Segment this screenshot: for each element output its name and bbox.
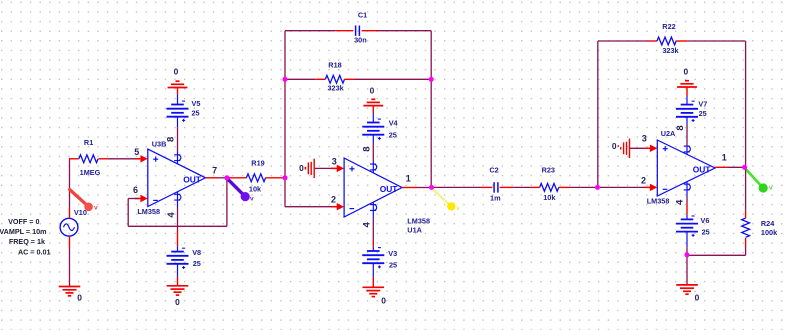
wire junction to U2A pin 2 <box>598 186 651 188</box>
wire V6 to junction <box>686 232 688 255</box>
label V7 <box>698 100 707 109</box>
svg-text:1: 1 <box>406 174 411 184</box>
junction R18 left <box>283 77 288 82</box>
svg-text:v: v <box>94 205 98 212</box>
wire loop left vertical <box>284 31 286 178</box>
junction R18 right <box>429 77 434 82</box>
label R23 <box>542 166 555 175</box>
capacitor C1 <box>335 26 377 36</box>
wire junction to U1A pin 2 <box>285 178 336 207</box>
value 25 V7 <box>699 109 707 118</box>
wire C2 to R23 <box>513 186 531 188</box>
wire U3B output <box>206 177 231 179</box>
wire U1A pin 4 to V3 <box>372 218 374 252</box>
wire V7 to U2A pin 8 <box>686 117 688 147</box>
op-amp U2A <box>657 140 715 196</box>
svg-text:4: 4 <box>361 221 372 227</box>
svg-text:30n: 30n <box>354 36 367 45</box>
svg-text:R22: R22 <box>662 22 675 31</box>
label V3 <box>388 249 397 258</box>
wire loop top right <box>378 30 432 32</box>
ground 0 inverted above V4 <box>363 99 383 105</box>
svg-text:V10: V10 <box>74 208 87 217</box>
svg-text:8: 8 <box>361 146 372 151</box>
wire V3 to ground <box>372 263 374 287</box>
label V5 <box>192 99 201 108</box>
svg-text:2: 2 <box>641 175 646 185</box>
svg-text:0: 0 <box>683 67 688 77</box>
svg-text:VOFF = 0: VOFF = 0 <box>8 217 39 226</box>
pin 8 number U2A <box>675 125 686 130</box>
ground 0 below V10 <box>59 287 81 296</box>
svg-text:R19: R19 <box>251 158 264 167</box>
svg-text:25: 25 <box>699 109 707 118</box>
label V4 <box>389 119 399 128</box>
svg-text:25: 25 <box>702 228 710 237</box>
ground 0 below V6 <box>676 285 698 294</box>
label C1 <box>358 10 367 19</box>
svg-text:0: 0 <box>299 163 304 173</box>
svg-text:v: v <box>769 185 773 192</box>
label R1 <box>84 138 93 147</box>
svg-text:4: 4 <box>166 212 177 218</box>
svg-text:C1: C1 <box>358 10 367 19</box>
pin 3 number U1A <box>332 156 337 166</box>
pin 6 number <box>133 185 138 195</box>
junction R19 right <box>283 175 288 180</box>
voltage probe marker yellow on U1A output <box>432 188 460 212</box>
svg-text:v: v <box>456 205 460 212</box>
svg-text:LM358: LM358 <box>647 196 670 205</box>
resistor R19 <box>229 174 283 182</box>
svg-text:V3: V3 <box>388 249 397 258</box>
value 25 V5 <box>192 109 200 118</box>
label U1A <box>407 226 422 235</box>
label V8 <box>192 248 201 257</box>
pin 3 arrow U1A <box>331 165 344 172</box>
svg-text:OUT: OUT <box>380 184 399 194</box>
label R19 <box>251 158 264 167</box>
op-amp U1A <box>344 158 402 217</box>
svg-text:25: 25 <box>389 260 397 269</box>
svg-text:LM358: LM358 <box>137 207 160 216</box>
resistor R22 <box>647 37 688 45</box>
battery V6 <box>676 216 698 237</box>
voltage probe marker green on U2A output <box>745 168 773 192</box>
junction V6 R24 <box>685 252 690 257</box>
pin 3 arrow U2A <box>644 145 657 152</box>
svg-text:3: 3 <box>642 134 647 144</box>
label U3B <box>152 140 167 149</box>
pin 4 stem U3B <box>174 192 181 208</box>
svg-text:R1: R1 <box>84 138 93 147</box>
svg-text:1m: 1m <box>490 194 501 203</box>
ground 0 inverted above V5 <box>168 81 188 87</box>
svg-text:0: 0 <box>370 86 375 96</box>
label V10 <box>74 208 87 217</box>
pin 2 arrow U1A <box>331 203 344 210</box>
resistor R18 <box>315 75 355 83</box>
svg-text:10k: 10k <box>543 193 556 202</box>
svg-text:1MEG: 1MEG <box>80 168 101 177</box>
wire R22 loop left vertical <box>597 41 599 187</box>
svg-text:25: 25 <box>389 130 397 139</box>
pin 8 stem U1A <box>370 162 377 173</box>
wire U1A output <box>402 187 431 189</box>
wire R22 loop top right <box>688 40 746 42</box>
value 1m <box>490 194 501 203</box>
wire R18 to loop right <box>355 78 431 80</box>
wire R24 to V6 junction <box>687 247 746 256</box>
svg-text:7: 7 <box>212 165 217 175</box>
voltage probe marker purple on U3B output <box>227 179 254 203</box>
wire ground to U2A pin 3 <box>630 147 649 149</box>
svg-text:V7: V7 <box>698 100 707 109</box>
pin 4 number U3B <box>166 212 177 218</box>
svg-text:6: 6 <box>133 185 138 195</box>
wire junction to ground V6 <box>686 255 688 285</box>
value 25 V8 <box>193 259 201 268</box>
label 0 net V3 ground <box>381 295 386 305</box>
label 0 net above V7 <box>683 67 688 77</box>
wire loop top left <box>285 30 335 32</box>
junction R22 tap <box>595 185 600 190</box>
value 25 V3 <box>389 260 397 269</box>
pin 4 number U1A <box>361 221 372 227</box>
svg-text:V6: V6 <box>701 216 710 225</box>
wire U2A output to R24 <box>745 167 747 211</box>
pin 4 stem U2A <box>684 182 691 197</box>
value 30n <box>354 36 367 45</box>
svg-text:OUT: OUT <box>693 165 712 175</box>
op-amp U3B <box>148 149 206 206</box>
svg-text:0: 0 <box>77 293 82 303</box>
pin 4 stem U1A <box>370 202 377 217</box>
svg-text:V5: V5 <box>192 99 201 108</box>
pin 2 number U2A <box>641 175 646 185</box>
wire R22 loop right vertical <box>745 41 747 167</box>
junction U3B output <box>224 175 229 180</box>
junction U1A output <box>429 185 434 190</box>
label 0 net U2A pin3 <box>612 141 619 151</box>
wire U3B pin 4 to V8 <box>177 208 179 252</box>
value 323k R22 <box>662 46 679 55</box>
battery V7 <box>676 101 698 122</box>
value 10k R23 <box>543 193 556 202</box>
pin 6 arrow U3B <box>135 195 148 202</box>
label U2A <box>661 129 676 138</box>
pin 7 number <box>212 165 217 175</box>
label LM358 U3B <box>137 207 160 216</box>
svg-text:2: 2 <box>331 195 336 205</box>
svg-text:v: v <box>250 196 254 203</box>
wire loop right vertical <box>430 31 432 188</box>
value 100k <box>761 228 778 237</box>
label R24 <box>761 219 775 228</box>
pin 1 number U1A <box>406 174 411 184</box>
svg-text:25: 25 <box>192 109 200 118</box>
ground 0 below V8 <box>167 286 189 295</box>
pin 1 number U2A <box>722 153 727 163</box>
wire V8 to ground <box>177 264 179 286</box>
voltage probe marker on V10 node <box>70 190 98 212</box>
svg-text:323k: 323k <box>662 46 679 55</box>
V10 parameter labels <box>0 217 51 257</box>
svg-text:0: 0 <box>695 293 700 303</box>
svg-text:AC = 0.01: AC = 0.01 <box>18 248 51 257</box>
capacitor C2 <box>481 182 513 192</box>
wire ground to V4 <box>372 106 374 123</box>
resistor R24 <box>742 211 750 247</box>
battery V3 <box>362 248 384 269</box>
battery V4 <box>362 119 384 140</box>
svg-text:R24: R24 <box>761 219 775 228</box>
svg-text:C2: C2 <box>489 166 498 175</box>
wire R23 to junction <box>570 186 598 188</box>
label 0 net U1A pin3 <box>299 163 306 173</box>
svg-text:0: 0 <box>175 297 180 307</box>
svg-text:8: 8 <box>166 137 177 142</box>
pin 8 number U1A <box>361 146 372 151</box>
label 0 net above V4 <box>370 86 375 96</box>
resistor R1 <box>69 155 108 163</box>
svg-text:LM358: LM358 <box>407 216 430 225</box>
wire V5 to U3B pin 8 <box>177 117 179 152</box>
pin 2 number U1A <box>331 195 336 205</box>
wire V10 to ground <box>69 248 71 287</box>
ground 0 rotated U2A pin3 <box>621 139 630 158</box>
svg-text:U3B: U3B <box>152 140 167 149</box>
pin 5 arrow U3B <box>135 155 148 162</box>
svg-text:100k: 100k <box>761 228 778 237</box>
wire ground to V7 <box>686 87 688 105</box>
svg-text:4: 4 <box>674 199 685 205</box>
label R22 <box>662 22 675 31</box>
battery V8 <box>167 248 189 269</box>
wire R22 loop top left <box>598 40 647 42</box>
pin 4 number U2A <box>674 199 685 205</box>
label C2 <box>489 166 498 175</box>
svg-text:R18: R18 <box>328 60 341 69</box>
pin 3 number U2A <box>642 134 647 144</box>
label 0 net V8 ground <box>175 297 180 307</box>
label LM358 U1A <box>407 216 430 225</box>
label V6 <box>701 216 710 225</box>
ground 0 rotated U1A pin3 <box>305 159 314 178</box>
value 1MEG <box>80 168 101 177</box>
feedback wire U3B output to pin 6 <box>128 178 227 227</box>
wire R1 to U3B pin 5 <box>108 158 140 160</box>
pin 8 stem U2A <box>684 146 691 154</box>
label LM358 U2A <box>647 196 670 205</box>
value 25 V6 <box>702 228 710 237</box>
label 0 net V10 ground <box>77 293 82 303</box>
value 25 V4 <box>389 130 397 139</box>
wire V4 to U1A pin 8 <box>372 135 374 162</box>
wire ground to U1A pin 3 <box>315 167 336 169</box>
svg-text:25: 25 <box>193 259 201 268</box>
value 10k R19 <box>249 185 262 194</box>
ground 0 below V3 <box>363 287 385 296</box>
svg-text:1: 1 <box>722 153 727 163</box>
svg-text:OUT: OUT <box>183 174 202 184</box>
svg-text:0: 0 <box>174 67 179 77</box>
wire U2A output <box>715 166 745 168</box>
value 323k R18 <box>327 84 344 93</box>
svg-text:FREQ = 1k: FREQ = 1k <box>9 237 45 246</box>
svg-text:VAMPL = 10m: VAMPL = 10m <box>0 227 47 236</box>
label R18 <box>328 60 341 69</box>
battery V5 <box>167 101 189 122</box>
svg-text:8: 8 <box>675 125 686 130</box>
label 0 net above V5 <box>174 67 179 77</box>
ground 0 inverted above V7 <box>677 81 697 87</box>
pin 8 stem U3B <box>174 152 181 164</box>
label 0 net V6 ground <box>695 293 700 303</box>
voltage source V10 <box>60 208 78 249</box>
svg-text:V8: V8 <box>192 248 201 257</box>
wire U1A output to C2 <box>431 186 481 188</box>
svg-text:323k: 323k <box>327 84 344 93</box>
pin 8 number U3B <box>166 137 177 142</box>
pin 2 arrow U2A <box>644 184 657 191</box>
svg-text:10k: 10k <box>249 185 262 194</box>
svg-text:5: 5 <box>134 147 139 157</box>
wire to R18 <box>285 78 315 80</box>
wire ground to V5 <box>177 88 179 105</box>
svg-text:R23: R23 <box>542 166 555 175</box>
svg-text:U1A: U1A <box>407 226 422 235</box>
svg-text:0: 0 <box>381 295 386 305</box>
wire V10 to R1 <box>69 158 71 207</box>
resistor R23 <box>530 184 570 192</box>
svg-text:U2A: U2A <box>661 129 676 138</box>
svg-text:0: 0 <box>612 141 617 151</box>
pin 5 number <box>134 147 139 157</box>
svg-text:V4: V4 <box>389 119 399 128</box>
junction U2A output <box>742 165 747 170</box>
wire U2A pin 4 to V6 <box>686 197 688 220</box>
svg-text:3: 3 <box>332 156 337 166</box>
